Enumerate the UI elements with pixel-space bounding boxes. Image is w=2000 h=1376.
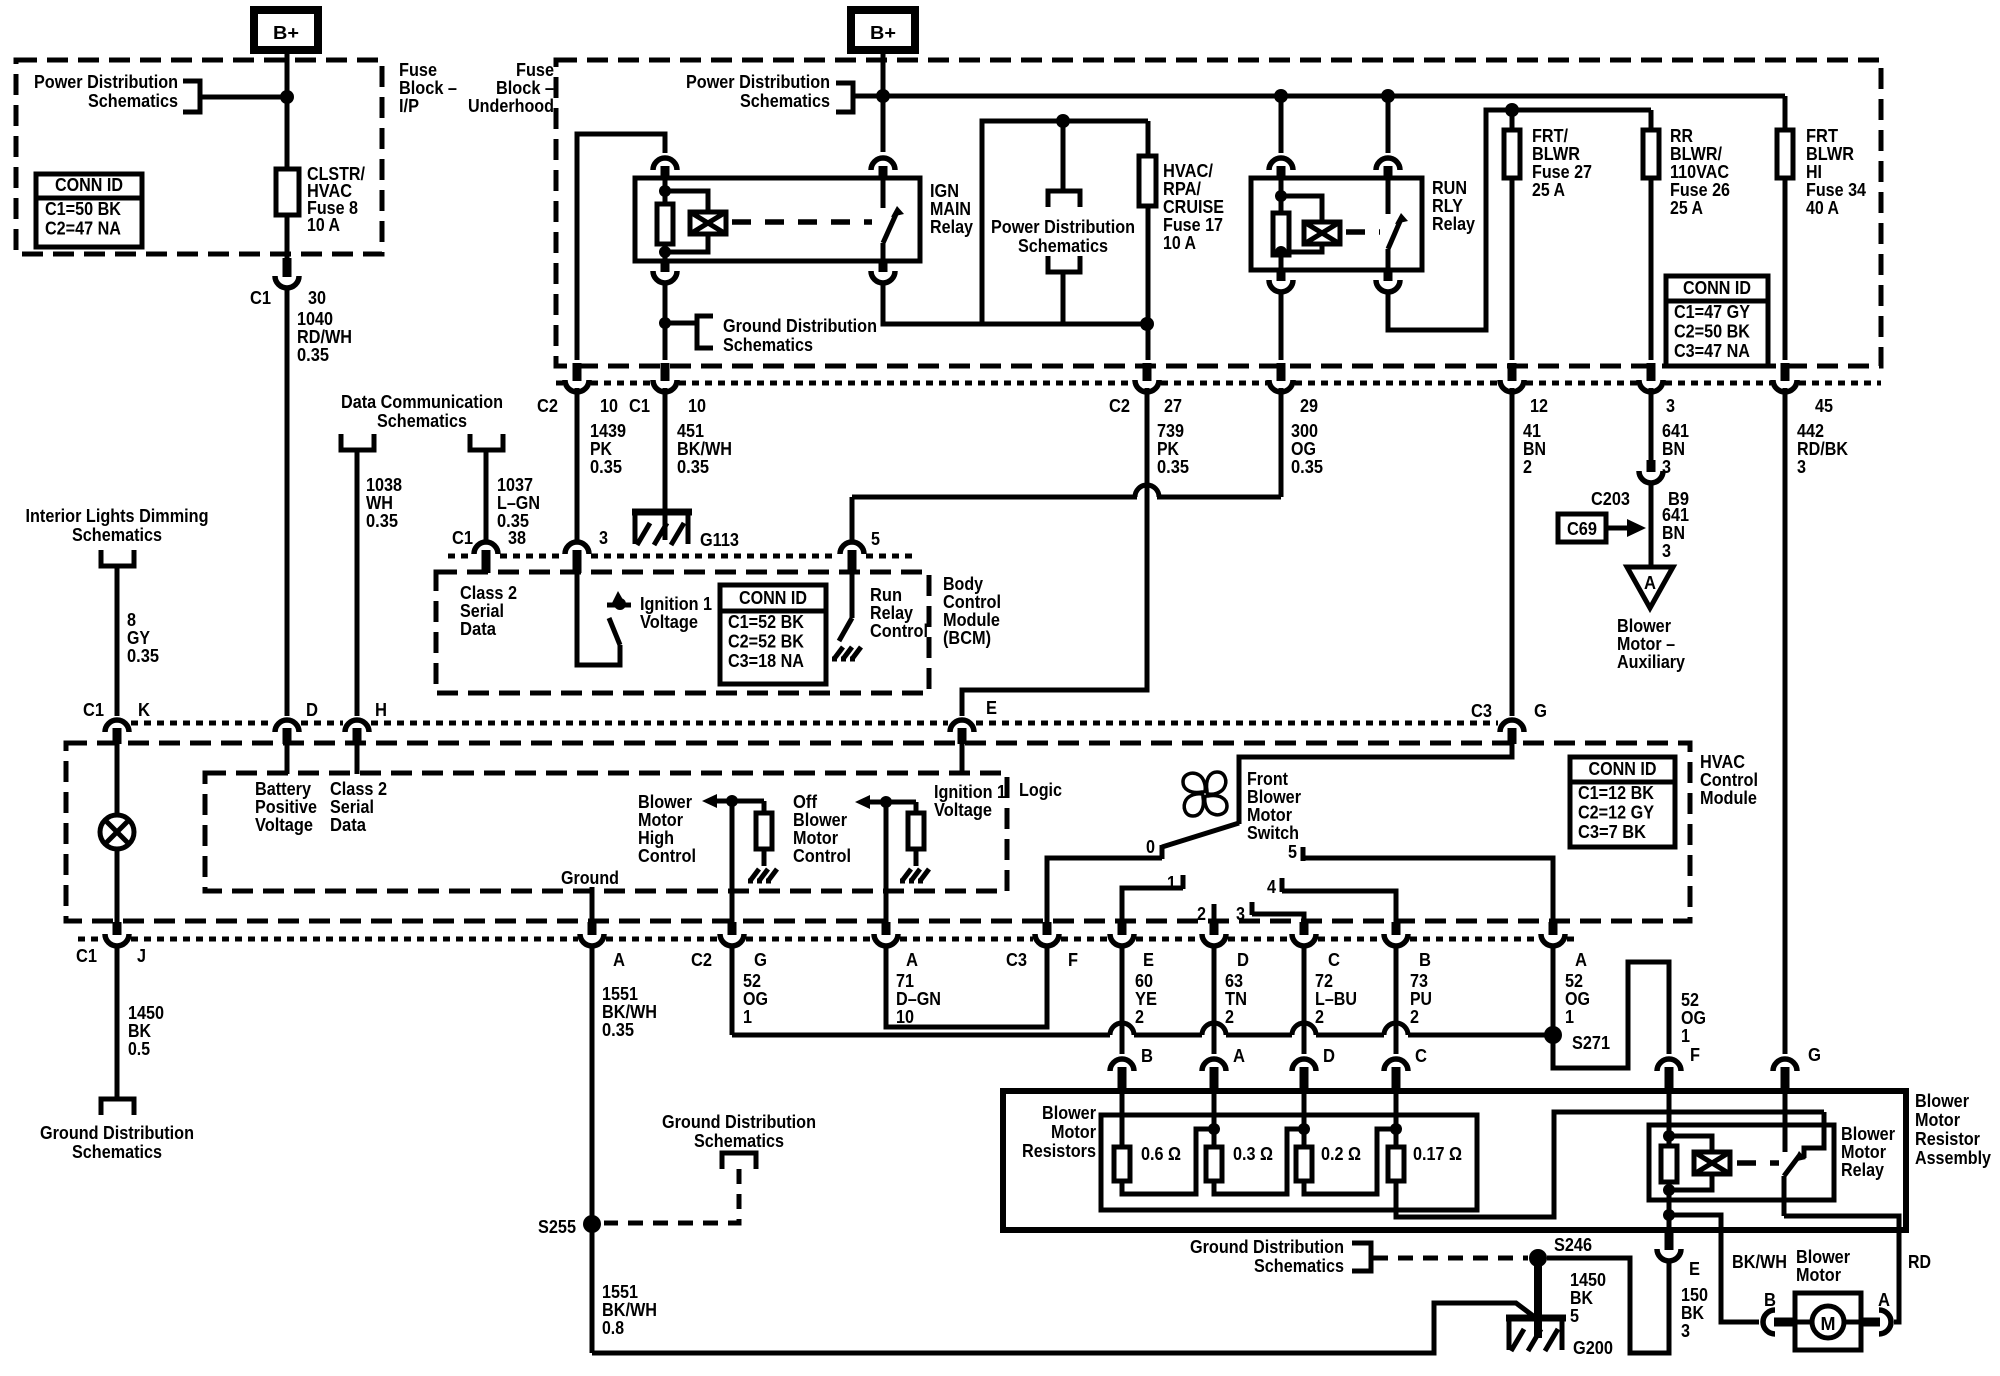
label Battery Positive Voltage [255,779,317,835]
connector HVAC pin D [275,720,299,744]
svg-text:25 A: 25 A [1532,180,1565,200]
svg-text:Fuse: Fuse [399,60,437,80]
svg-text:C1: C1 [76,946,97,966]
svg-text:D: D [1323,1046,1335,1066]
blower motor relay switch [1784,1092,1824,1216]
svg-text:B: B [1764,1290,1776,1310]
label 1450 BK 0.5 [128,1003,164,1059]
power feed B+ (fuse block I/P) [254,10,318,50]
label 1038 WH 0.35 [366,475,402,531]
svg-text:L–BU: L–BU [1315,989,1357,1009]
svg-text:10: 10 [600,396,618,416]
svg-text:Control: Control [638,846,696,866]
svg-text:C3: C3 [1471,701,1492,721]
svg-text:Control: Control [870,621,928,641]
label fuse 34 [1806,126,1866,218]
reference Power Distribution Schematics (I/P) [34,72,283,112]
connector HVAC pin H [345,720,369,744]
svg-text:Schematics: Schematics [694,1131,784,1151]
svg-text:BK: BK [1681,1303,1704,1323]
svg-text:5: 5 [1288,842,1297,862]
svg-text:641: 641 [1662,505,1689,525]
svg-text:Power Distribution: Power Distribution [34,72,178,92]
blower motor high control output [702,794,764,922]
reference Power Distribution Schematics (underhood top) [686,72,853,112]
wire resistor to ground [762,849,767,866]
svg-text:IGN: IGN [930,181,959,201]
label Blower Motor - Auxiliary [1617,616,1685,672]
svg-text:Data Communication: Data Communication [341,392,503,412]
svg-text:C: C [1328,950,1340,970]
connector underhood pin 10 [565,363,589,392]
label Ignition 1 Voltage (HVAC) [934,782,1006,820]
svg-text:Ground Distribution: Ground Distribution [40,1123,194,1143]
resistor 0.3 ohm [1206,1092,1304,1194]
svg-text:MAIN: MAIN [930,199,971,219]
wire 41 BN to HVAC pin G/C3 [1510,388,1515,716]
svg-text:Positive: Positive [255,797,317,817]
label wire 641 BN 3 [1662,421,1689,477]
wire 73 PU (pin B to resistor C) [1394,946,1399,1054]
svg-text:HVAC/: HVAC/ [1163,161,1213,181]
svg-text:5: 5 [871,529,880,549]
svg-text:C2=50 BK: C2=50 BK [1674,322,1750,342]
labels C1 / 38 [452,528,526,548]
node resistor tap C [1390,1123,1402,1135]
connector RUN RLY coil pin (bottom) [1269,270,1293,292]
svg-text:High: High [638,828,674,848]
svg-text:2: 2 [1225,1007,1234,1027]
svg-text:Blower: Blower [1796,1247,1850,1267]
svg-text:Battery: Battery [255,779,311,799]
switch position 2 [1197,904,1214,926]
ground G200 [1506,1318,1613,1358]
svg-text:Schematics: Schematics [72,525,162,545]
svg-text:Interior Lights Dimming: Interior Lights Dimming [26,506,209,526]
labels C1 / K [83,700,150,720]
svg-text:BK/WH: BK/WH [1732,1252,1787,1272]
svg-text:B: B [1141,1046,1153,1066]
connector underhood pin 45 [1773,363,1797,392]
node fuse 17 bottom [1140,317,1154,331]
svg-text:C2: C2 [537,396,558,416]
reference Interior Lights Dimming Schematics [26,506,209,566]
svg-text:0.6 Ω: 0.6 Ω [1141,1144,1181,1164]
node busbar at B+ [876,89,890,103]
connector resistor assembly pin F [1657,1059,1681,1092]
svg-text:0.35: 0.35 [366,511,398,531]
HVAC logic dashed box [205,773,1007,891]
svg-text:C2: C2 [1109,396,1130,416]
connector HVAC bottom pin J [105,922,129,946]
svg-text:C3: C3 [1006,950,1027,970]
connector HVAC bottom pin F [1035,922,1059,946]
connector HVAC bottom pin C [1292,922,1316,946]
connector HVAC pin E [950,720,974,744]
node S255 [583,1215,601,1233]
BCM ignition 1 voltage switch [577,573,631,665]
svg-text:1: 1 [1681,1026,1690,1046]
node busbar at RUN RLY switch [1381,89,1395,103]
fuse F8 CLSTR/HVAC [276,169,299,215]
wire busbar to RUN RLY coil [1279,96,1284,153]
resistor (blower high control pull) [756,813,772,849]
label Front Blower Motor Switch [1247,769,1301,843]
connector HVAC pin G (C3) [1500,720,1524,744]
wire 71 D-GN loop pin A to pin F [886,946,1047,1027]
svg-text:BN: BN [1662,523,1685,543]
svg-text:C1: C1 [629,396,650,416]
svg-text:B+: B+ [273,23,299,43]
svg-text:CONN ID: CONN ID [1589,759,1657,779]
switch position 5 [1288,842,1553,926]
svg-text:0.35: 0.35 [602,1020,634,1040]
wire 63 TN (pin D to resistor A) [1212,946,1217,1054]
connector resistor assembly pin E [1657,1231,1681,1261]
svg-text:Switch: Switch [1247,823,1299,843]
svg-text:1551: 1551 [602,1282,638,1302]
svg-text:52: 52 [1565,971,1583,991]
reference Ground Distribution Schematics (S246) [1190,1237,1528,1276]
svg-text:Schematics: Schematics [1018,236,1108,256]
svg-text:PU: PU [1410,989,1432,1009]
label 72 L-BU 2 [1315,971,1357,1027]
svg-text:40 A: 40 A [1806,198,1839,218]
wire coil feed (to pin C2-10) [577,134,665,360]
label Run Relay Control [870,585,928,641]
svg-text:CONN ID: CONN ID [1683,278,1751,298]
svg-text:G: G [1534,701,1547,721]
label Class 2 Serial Data (HVAC) [330,779,387,835]
wire 1551 BK/WH ground from pin A [590,946,595,1353]
CONN ID table (underhood) [1666,276,1768,366]
svg-text:Class 2: Class 2 [330,779,387,799]
svg-text:442: 442 [1797,421,1824,441]
svg-text:Body: Body [943,574,983,594]
svg-text:OG: OG [743,989,768,1009]
svg-text:Ground: Ground [561,868,619,888]
wire resistor to ground 2 [914,849,919,866]
svg-text:Blower: Blower [1042,1103,1096,1123]
svg-text:1: 1 [1167,873,1176,893]
svg-text:WH: WH [366,493,393,513]
svg-text:2: 2 [1135,1007,1144,1027]
wire RUN RLY switch out to fuses 27/26 [1388,110,1651,330]
svg-text:5: 5 [1570,1306,1579,1326]
ground G113 [632,512,739,550]
wire B+ to IGN MAIN switch [881,50,886,152]
svg-text:1040: 1040 [297,309,333,329]
svg-text:C1=47 GY: C1=47 GY [1674,302,1750,322]
label Fuse Block - Underhood [468,60,554,116]
busbar B+ distribution [852,94,1785,99]
svg-text:RR: RR [1670,126,1693,146]
svg-text:C69: C69 [1567,519,1597,539]
svg-text:A: A [1878,1290,1890,1310]
IGN MAIN relay coil [657,178,726,261]
svg-text:RUN: RUN [1432,178,1467,198]
svg-text:C3=47 NA: C3=47 NA [1674,341,1750,361]
blower motor relay box [1649,1125,1834,1200]
reference Ground Distribution Schematics (underhood) [665,316,877,355]
svg-text:3: 3 [599,528,608,548]
label wire 739 PK 0.35 [1157,421,1189,477]
RUN RLY relay dashed link [1346,229,1380,235]
svg-text:2: 2 [1315,1007,1324,1027]
svg-text:Assembly: Assembly [1915,1148,1991,1168]
svg-text:63: 63 [1225,971,1243,991]
label 1450 BK 5 [1570,1270,1606,1326]
svg-text:52: 52 [1681,990,1699,1010]
svg-text:A: A [906,950,918,970]
arrow C69 to wire [1606,519,1646,537]
svg-text:Blower: Blower [1915,1091,1969,1111]
reference Data Communication Schematics [341,392,503,450]
svg-text:0.2 Ω: 0.2 Ω [1321,1144,1361,1164]
label wire 442 RD/BK 3 [1797,421,1848,477]
svg-text:Power Distribution: Power Distribution [686,72,830,92]
svg-text:641: 641 [1662,421,1689,441]
label Blower Motor High Control [638,792,696,866]
connector underhood pin 3 [1639,363,1663,392]
front blower motor switch blade [1162,823,1239,847]
svg-text:HI: HI [1806,162,1822,182]
svg-text:0.35: 0.35 [1291,457,1323,477]
svg-text:2: 2 [1197,904,1206,924]
label 52 OG 1 (pin A) [1565,971,1590,1027]
label Ignition 1 Voltage (BCM) [640,594,712,632]
svg-text:B: B [1419,950,1431,970]
svg-text:Module: Module [1700,788,1757,808]
svg-text:YE: YE [1135,989,1157,1009]
label 150 BK 3 [1681,1285,1708,1341]
node resistor tap D [1298,1123,1310,1135]
blower motor relay coil [1661,1092,1730,1242]
IGN MAIN relay switch [883,178,904,261]
svg-text:K: K [138,700,150,720]
svg-text:J: J [137,946,146,966]
label 52 OG 1 (jog) [1681,990,1706,1046]
wire B+ to busbar [881,50,886,152]
label IGN MAIN Relay [930,181,973,237]
svg-text:739: 739 [1157,421,1184,441]
wire 442 RD/BK to resistor assembly G [1783,388,1788,1054]
svg-text:1: 1 [1565,1007,1574,1027]
CONN ID table (BCM) [720,585,826,684]
label 63 TN 2 [1225,971,1247,1027]
connector RUN RLY switch pin (bottom) [1376,270,1400,292]
connector underhood pin 10 [653,363,677,392]
connector blower motor pin A [1861,1310,1891,1334]
label fuse 8 [307,164,365,235]
labels C3 / G [1471,701,1547,721]
label wire 41 BN 2 [1523,421,1546,477]
label 73 PU 2 [1410,971,1432,1027]
svg-text:FRT/: FRT/ [1532,126,1568,146]
svg-text:71: 71 [896,971,914,991]
svg-text:1038: 1038 [366,475,402,495]
connector resistor assembly pin D [1292,1059,1316,1092]
svg-text:8: 8 [127,610,136,630]
fuse F34 FRT BLWR HI [1783,96,1788,360]
svg-text:Module: Module [943,610,1000,630]
svg-text:L–GN: L–GN [497,493,540,513]
wire S271 jog to resistor assembly pin F [1553,962,1669,1068]
svg-text:0.35: 0.35 [1157,457,1189,477]
blower motor relay dashed link [1737,1160,1779,1166]
svg-text:D: D [1237,950,1249,970]
connector C203 pin B9 [1639,460,1663,483]
wire 300 OG to BCM pin 5 (with hop) [852,388,1281,543]
svg-text:BLWR: BLWR [1532,144,1580,164]
svg-text:OG: OG [1291,439,1316,459]
wire H into logic box [355,744,360,774]
label Blower Motor Resistors [1022,1103,1096,1161]
label 1040 RD/WH 0.35 [297,309,352,365]
connector HVAC bottom pin G [720,922,744,946]
svg-text:Blower: Blower [1841,1124,1895,1144]
wire lamp to pin J [115,849,120,922]
svg-text:1450: 1450 [128,1003,164,1023]
wire 52 OG from pin G to S271 (with hops) [732,946,1553,1035]
HVAC control module dashed box [66,743,1690,921]
connector BCM pin 5 [840,542,864,573]
label Blower Motor Resistor Assembly [1915,1091,1991,1168]
svg-text:RD/BK: RD/BK [1797,439,1848,459]
svg-text:1: 1 [743,1007,752,1027]
svg-text:Relay: Relay [930,217,973,237]
svg-text:Underhood: Underhood [468,96,554,116]
fuse block underhood dashed box [556,60,1881,366]
svg-text:0.35: 0.35 [297,345,329,365]
blower motor resistor assembly box [1003,1091,1906,1230]
svg-text:3: 3 [1797,457,1806,477]
wire 1038 WH to HVAC pin H [355,450,360,716]
connector IGN MAIN switch pin (bottom) [871,261,895,283]
wire 739 PK to BCM-row / HVAC pin E [962,388,1147,716]
connector IGN MAIN switch pin (top) [871,158,895,179]
instrument panel connector row (dash-dot) [131,721,273,726]
label RUN RLY Relay [1432,178,1475,234]
underhood connector row (dotted) [556,381,563,386]
svg-text:2: 2 [1523,457,1532,477]
switch position 4 [1267,877,1396,926]
svg-text:CRUISE: CRUISE [1163,197,1224,217]
connector resistor assembly pin A [1202,1059,1226,1092]
svg-text:451: 451 [677,421,704,441]
svg-text:BN: BN [1523,439,1546,459]
svg-text:Ground Distribution: Ground Distribution [1190,1237,1344,1257]
resistor (off blower control pull) [908,813,924,849]
svg-text:Control: Control [793,846,851,866]
svg-text:Relay: Relay [1841,1160,1884,1180]
svg-text:OG: OG [1681,1008,1706,1028]
svg-text:Motor: Motor [1247,805,1292,825]
svg-text:C: C [1415,1046,1427,1066]
svg-text:Fuse 34: Fuse 34 [1806,180,1866,200]
svg-text:BLWR: BLWR [1806,144,1854,164]
label Class 2 Serial Data (BCM) [460,583,517,639]
connector underhood pin 12 [1500,363,1524,392]
connector BCM pin 3 [565,542,589,573]
labels HVAC bottom row pins [76,946,1587,970]
svg-text:41: 41 [1523,421,1541,441]
svg-text:Auxiliary: Auxiliary [1617,652,1685,672]
svg-text:Ground Distribution: Ground Distribution [723,316,877,336]
svg-text:Fuse: Fuse [516,60,554,80]
wire 72 L-BU (pin C to resistor D) [1302,946,1307,1054]
connector underhood pin 29 [1269,363,1293,392]
label fuse 26 [1670,126,1730,218]
reference Ground Distribution Schematics (S255) [604,1112,816,1223]
svg-text:12: 12 [1530,396,1548,416]
node busbar at RUN RLY coil [1274,89,1288,103]
svg-text:F: F [1068,950,1078,970]
wire S246 to G200 [1534,1258,1542,1338]
svg-text:Voltage: Voltage [255,815,313,835]
svg-text:E: E [1143,950,1154,970]
svg-text:Off: Off [793,792,818,812]
labels underhood row pins [537,396,1833,416]
svg-text:G: G [754,950,767,970]
svg-text:Resistors: Resistors [1022,1141,1096,1161]
svg-text:25 A: 25 A [1670,198,1703,218]
svg-text:30: 30 [308,288,326,308]
svg-text:C2=52 BK: C2=52 BK [728,632,804,652]
svg-text:Data: Data [460,619,497,639]
power feed B+ (fuse block underhood) [851,10,915,50]
svg-text:E: E [1689,1259,1700,1279]
svg-text:BK/WH: BK/WH [677,439,732,459]
wire K into HVAC [115,744,120,816]
svg-text:C1: C1 [250,288,271,308]
wire G/C3 to blower switch [1239,744,1512,824]
node blower relay coil to BK/WH branch [1663,1209,1675,1221]
svg-text:1551: 1551 [602,984,638,1004]
svg-text:BK/WH: BK/WH [602,1300,657,1320]
svg-text:2: 2 [1410,1007,1419,1027]
svg-text:C3=7 BK: C3=7 BK [1578,822,1646,842]
wire B+ to fuse 8 [285,50,290,170]
wire 52 OG pin A to S271 [1551,946,1556,1035]
svg-text:Voltage: Voltage [640,612,698,632]
svg-text:B+: B+ [870,23,896,43]
fan icon [1183,772,1227,816]
svg-text:BK: BK [1570,1288,1593,1308]
label wire 641 BN 3 (lower) [1662,505,1689,561]
svg-text:60: 60 [1135,971,1153,991]
wire E into logic box [960,744,965,774]
svg-text:3: 3 [1236,904,1245,924]
svg-text:OG: OG [1565,989,1590,1009]
wire fuse 17 vertical [1146,121,1151,360]
svg-text:Fuse 26: Fuse 26 [1670,180,1730,200]
svg-text:RD: RD [1908,1252,1931,1272]
wire fuse 8 to connector C1 [285,215,290,258]
svg-text:A: A [613,950,625,970]
svg-text:38: 38 [508,528,526,548]
svg-text:PK: PK [590,439,612,459]
connector RUN RLY switch pin (top) [1376,158,1400,179]
svg-text:M: M [1821,1314,1836,1334]
connector HVAC bottom pin E [1110,922,1134,946]
svg-text:Control: Control [943,592,1001,612]
node fuse 27 feed [1505,103,1519,117]
fuse F17 HVAC/RPA/CRUISE [1139,156,1156,206]
svg-text:Voltage: Voltage [934,800,992,820]
wire 60 YE (pin E to resistor B) [1120,946,1125,1054]
label 1551 BK/WH 0.35 [602,984,657,1040]
